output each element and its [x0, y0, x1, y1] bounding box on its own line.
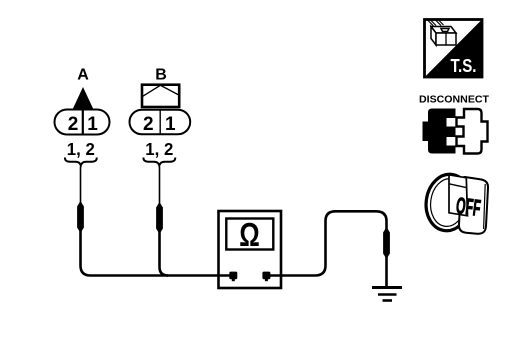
svg-text:Ω: Ω — [239, 216, 260, 253]
svg-text:1: 1 — [165, 114, 176, 135]
svg-text:DISCONNECT: DISCONNECT — [419, 94, 490, 106]
svg-text:1: 1 — [87, 114, 98, 135]
svg-text:1, 2: 1, 2 — [67, 139, 95, 159]
svg-text:2: 2 — [68, 114, 79, 135]
svg-text:2: 2 — [143, 114, 154, 135]
svg-text:A: A — [77, 67, 89, 84]
svg-text:OFF: OFF — [455, 192, 482, 221]
svg-text:1, 2: 1, 2 — [145, 139, 173, 159]
svg-text:B: B — [155, 67, 167, 84]
svg-text:T.S.: T.S. — [451, 56, 477, 76]
